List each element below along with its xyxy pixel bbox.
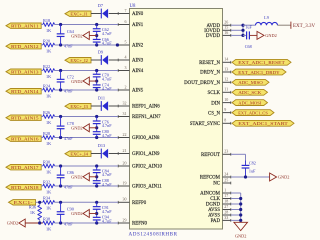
wire — [231, 219, 241, 221]
svg-text:EXT_ADC1_DRDY: EXT_ADC1_DRDY — [238, 70, 280, 75]
svg-text:7: 7 — [125, 8, 127, 13]
pin 29 REFN0 — [118, 217, 148, 226]
pin 25 NC — [213, 177, 231, 186]
svg-text:REFP1_AIN6: REFP1_AIN6 — [132, 105, 160, 110]
port EXT_ADC1_CS — [232, 110, 274, 116]
junction — [59, 115, 62, 118]
power port GND2 — [71, 32, 89, 40]
svg-text:D13: D13 — [98, 143, 105, 148]
svg-text:1uF: 1uF — [245, 24, 252, 29]
svg-text:11: 11 — [224, 87, 228, 92]
junction — [116, 43, 119, 46]
port EXC1- — [9, 200, 36, 205]
svg-text:ADC_MOSI: ADC_MOSI — [238, 100, 261, 105]
port EXT_ADC1_START — [232, 120, 294, 126]
svg-text:1K: 1K — [46, 189, 52, 194]
capacitor C78 — [57, 117, 74, 141]
junction — [59, 201, 62, 204]
capacitor C90 — [57, 202, 74, 226]
svg-text:17: 17 — [224, 193, 228, 198]
svg-text:4.7nF: 4.7nF — [102, 86, 112, 91]
junction — [239, 213, 242, 216]
svg-text:EXT_ADC1_CS: EXT_ADC1_CS — [238, 110, 268, 115]
junction — [59, 164, 62, 167]
svg-text:30: 30 — [123, 197, 127, 202]
svg-text:33: 33 — [224, 215, 228, 220]
wire — [91, 13, 101, 15]
svg-text:47nF: 47nF — [64, 221, 73, 226]
pin 1 AINCOM — [200, 187, 231, 196]
svg-text:EXT_ADC1_START: EXT_ADC1_START — [238, 121, 288, 126]
wire — [91, 153, 101, 155]
wire — [55, 70, 118, 72]
svg-text:ADS124S08IRHBR: ADS124S08IRHBR — [129, 232, 178, 238]
pin 32 REFP1_AIN6 — [118, 100, 160, 109]
junction — [239, 197, 242, 200]
wire — [41, 137, 43, 139]
svg-text:14: 14 — [224, 57, 228, 62]
power port GND2 — [257, 31, 277, 39]
wire — [91, 59, 101, 61]
svg-text:GPIO1_AIN9: GPIO1_AIN9 — [132, 152, 160, 157]
svg-text:RTD_AIN15: RTD_AIN15 — [11, 115, 39, 120]
svg-text:47nF: 47nF — [64, 43, 73, 48]
svg-text:RTD_AIN12: RTD_AIN12 — [11, 44, 39, 49]
junction — [95, 43, 98, 46]
resistor R26 — [43, 110, 55, 125]
svg-text:16: 16 — [224, 30, 228, 35]
wire — [36, 201, 43, 203]
port EXT_ADC1_DRDY — [232, 69, 286, 75]
port RTD_AIN16 — [6, 136, 41, 141]
wire gnd bus — [240, 193, 242, 222]
capacitor C80 — [93, 128, 112, 138]
svg-text:22: 22 — [123, 132, 127, 137]
capacitor C94 — [93, 213, 112, 223]
junction — [95, 23, 98, 26]
svg-text:4: 4 — [125, 54, 127, 59]
diode D11 — [98, 96, 108, 111]
svg-text:GPIO3_AIN11: GPIO3_AIN11 — [132, 185, 162, 190]
junction — [95, 126, 98, 129]
svg-text:D7: D7 — [98, 3, 104, 8]
wire — [41, 165, 43, 167]
svg-text:6: 6 — [125, 19, 127, 24]
resistor R18 — [43, 18, 55, 33]
wire — [231, 176, 270, 178]
port EXT_ADC1_RESET — [232, 59, 291, 65]
wire — [250, 34, 257, 36]
svg-text:21: 21 — [123, 148, 127, 153]
svg-text:10: 10 — [224, 97, 228, 102]
resistor R34 — [43, 196, 55, 211]
wire — [41, 44, 43, 46]
svg-text:32: 32 — [123, 100, 127, 105]
wire — [55, 89, 118, 91]
resistor R32 — [43, 179, 55, 194]
svg-text:GND2: GND2 — [235, 233, 246, 238]
svg-text:1K: 1K — [46, 206, 52, 211]
svg-text:AVSS: AVSS — [208, 214, 220, 219]
svg-text:R38: R38 — [43, 216, 50, 221]
svg-text:4.7nF: 4.7nF — [102, 123, 112, 128]
svg-text:9: 9 — [224, 107, 226, 112]
svg-text:RTD_AIN13: RTD_AIN13 — [11, 69, 39, 74]
svg-text:27: 27 — [224, 204, 228, 209]
diode D7 — [98, 3, 108, 18]
svg-text:PAD: PAD — [211, 219, 221, 224]
svg-text:1K: 1K — [46, 169, 52, 174]
junction — [59, 221, 62, 224]
port RTD_AIN13 — [6, 69, 41, 74]
svg-text:R24: R24 — [43, 83, 51, 88]
capacitor C66 — [93, 36, 112, 46]
wire — [231, 203, 241, 205]
svg-text:29: 29 — [123, 217, 127, 222]
svg-text:REFN1_AIN7: REFN1_AIN7 — [132, 115, 161, 120]
wire — [109, 105, 130, 107]
svg-text:1K: 1K — [30, 210, 36, 215]
svg-text:C68: C68 — [245, 44, 252, 49]
port RTD_AIN11 — [6, 23, 41, 28]
pin 8 START_SYNC — [190, 118, 231, 127]
power port GND2 — [71, 124, 89, 132]
svg-text:EXC+_I3: EXC+_I3 — [70, 104, 88, 109]
capacitor C91 — [93, 202, 112, 214]
wire — [231, 214, 241, 216]
resistor R28 — [43, 131, 55, 146]
capacitor C72 — [57, 71, 74, 94]
wire — [278, 24, 291, 26]
svg-text:AIN3: AIN3 — [132, 59, 144, 64]
svg-text:REFP0: REFP0 — [132, 201, 147, 206]
svg-text:28: 28 — [224, 209, 228, 214]
pin 15 IOVDD — [204, 25, 231, 34]
wire — [55, 24, 118, 26]
pin 28 AVSS — [208, 209, 231, 218]
pin 7 AIN0 — [118, 8, 144, 17]
svg-text:4.7nF: 4.7nF — [102, 133, 112, 138]
pin 19 GPIO3_AIN11 — [118, 180, 162, 189]
port ADC_MOSI — [232, 100, 268, 106]
resistor R38 — [43, 216, 55, 231]
junction — [95, 34, 98, 37]
junction — [95, 164, 98, 167]
svg-text:1K: 1K — [46, 120, 52, 125]
svg-text:AIN5: AIN5 — [132, 89, 144, 94]
wire — [41, 185, 43, 187]
svg-text:5: 5 — [125, 39, 127, 44]
svg-text:1K: 1K — [46, 74, 52, 79]
pin 14 RESET_N — [199, 57, 231, 66]
svg-text:REFCOM: REFCOM — [200, 176, 221, 181]
svg-text:47nF: 47nF — [64, 136, 73, 141]
wire — [231, 198, 241, 200]
wire — [55, 116, 118, 118]
svg-text:4.7nF: 4.7nF — [102, 182, 112, 187]
op-amp/IC U8 ADS124S08IRHBR body — [129, 4, 223, 238]
svg-text:REFOUT: REFOUT — [201, 153, 220, 158]
wire — [231, 153, 246, 155]
wire — [41, 89, 43, 91]
pin 5 AIN2 — [118, 39, 144, 48]
svg-text:GND2: GND2 — [71, 33, 82, 38]
pin 3 AIN4 — [118, 65, 144, 74]
pin 30 REFP0 — [118, 197, 147, 206]
junction — [95, 184, 98, 187]
power port GND2 — [71, 77, 89, 85]
pin 21 GPIO1_AIN9 — [118, 148, 160, 157]
svg-text:12: 12 — [224, 77, 228, 82]
pin 12 DOUT_DRDY_N — [184, 77, 231, 86]
svg-text:1K: 1K — [46, 93, 52, 98]
resistor R30 — [43, 159, 55, 174]
svg-text:EXT_ADC1_RESET: EXT_ADC1_RESET — [238, 60, 285, 65]
resistor R22 — [43, 64, 55, 79]
capacitor C62 — [93, 25, 112, 36]
junction — [95, 115, 98, 118]
svg-text:4.7nF: 4.7nF — [102, 76, 112, 81]
junction — [59, 136, 62, 139]
junction — [239, 208, 242, 211]
junction — [239, 202, 242, 205]
power port GND2 — [71, 173, 89, 181]
svg-text:19: 19 — [123, 180, 127, 185]
wire — [231, 34, 243, 36]
svg-text:RESET_N: RESET_N — [199, 61, 220, 66]
wire — [245, 154, 247, 160]
junction — [38, 201, 41, 204]
svg-text:GND2: GND2 — [265, 33, 276, 38]
svg-text:DRDY_N: DRDY_N — [200, 71, 220, 76]
port RTD_AIN12 — [6, 44, 41, 49]
svg-text:GND2: GND2 — [71, 211, 82, 216]
capacitor C70 — [93, 71, 112, 82]
wire — [89, 212, 96, 214]
capacitor C84 — [93, 166, 112, 177]
svg-text:1K: 1K — [46, 48, 52, 53]
junction — [95, 212, 98, 215]
svg-text:R20: R20 — [43, 38, 50, 43]
port EXC+_I2 — [65, 58, 91, 63]
svg-text:4.7nF: 4.7nF — [102, 41, 112, 46]
junction — [241, 29, 244, 32]
wire — [89, 80, 96, 82]
wire — [25, 222, 43, 224]
svg-text:RTD_AIN18: RTD_AIN18 — [11, 185, 39, 190]
svg-text:13: 13 — [224, 66, 228, 71]
svg-text:47nF: 47nF — [64, 184, 73, 189]
pin 20 GPIO2_AIN10 — [118, 160, 162, 169]
wire — [109, 13, 130, 15]
resistor R24 — [43, 83, 55, 98]
wire — [41, 116, 43, 118]
power port GND2 — [71, 209, 89, 217]
svg-text:D11: D11 — [98, 96, 105, 101]
port ADC_SCK — [232, 89, 268, 95]
svg-text:EXT_3.3V: EXT_3.3V — [293, 24, 315, 29]
pin 11 SCLK — [207, 87, 231, 96]
svg-text:RTD_AIN16: RTD_AIN16 — [11, 136, 39, 141]
capacitor C82 — [242, 161, 256, 178]
svg-text:CS_N: CS_N — [208, 111, 220, 116]
wire — [109, 59, 130, 61]
wire — [231, 29, 243, 31]
svg-text:RTD_AIN17: RTD_AIN17 — [11, 165, 39, 170]
junction — [95, 221, 98, 224]
svg-text:1: 1 — [224, 187, 226, 192]
port ADC_MISO — [232, 79, 269, 85]
svg-text:D9: D9 — [98, 50, 103, 55]
junction — [95, 136, 98, 139]
svg-text:R36: R36 — [29, 205, 37, 210]
svg-text:18: 18 — [224, 198, 228, 203]
wire — [55, 44, 118, 46]
pin 6 AIN1 — [118, 19, 144, 28]
port RTD_AIN14 — [6, 89, 41, 94]
svg-text:AIN0: AIN0 — [132, 12, 144, 17]
svg-text:2: 2 — [125, 84, 127, 89]
wire — [55, 222, 118, 224]
port EXC+_I4 — [65, 151, 91, 156]
junction — [95, 88, 98, 91]
svg-text:L9: L9 — [264, 15, 269, 20]
capacitor C68 — [243, 24, 252, 49]
svg-text:25: 25 — [224, 177, 228, 182]
wire supply bus — [242, 25, 244, 35]
power port GND2 — [7, 219, 25, 227]
svg-text:4.7nF: 4.7nF — [102, 31, 112, 36]
wire — [55, 185, 118, 187]
junction — [59, 23, 62, 26]
svg-text:AVSS: AVSS — [208, 208, 220, 213]
svg-text:AIN1: AIN1 — [132, 23, 144, 28]
svg-text:CLK: CLK — [210, 197, 220, 202]
svg-text:R30: R30 — [43, 159, 50, 164]
port RTD_AIN18 — [6, 185, 41, 190]
wire — [55, 137, 118, 139]
svg-text:GND2: GND2 — [71, 126, 82, 131]
pin 13 DRDY_N — [200, 66, 231, 75]
port RTD_AIN17 — [6, 165, 41, 170]
svg-text:AIN2: AIN2 — [132, 44, 144, 49]
pin 33 PAD — [211, 215, 231, 224]
svg-text:AIN4: AIN4 — [132, 69, 144, 74]
wire — [41, 24, 43, 26]
power port GND2 — [234, 222, 248, 238]
svg-text:DVDD: DVDD — [206, 34, 221, 39]
svg-text:R34: R34 — [43, 196, 51, 201]
junction — [95, 201, 98, 204]
svg-text:23: 23 — [224, 149, 228, 154]
svg-text:GND2: GND2 — [71, 79, 82, 84]
svg-text:R22: R22 — [43, 64, 50, 69]
junction — [38, 221, 41, 224]
svg-text:4.7nF: 4.7nF — [102, 218, 112, 223]
svg-text:DIN: DIN — [211, 101, 220, 106]
wire — [231, 192, 241, 194]
svg-text:1K: 1K — [46, 141, 52, 146]
pin 17 CLK — [210, 193, 231, 202]
capacitor C76 — [93, 117, 112, 129]
junction — [244, 175, 247, 178]
wire — [231, 24, 243, 26]
svg-text:31: 31 — [123, 111, 127, 116]
capacitor C74 — [93, 81, 112, 91]
svg-text:GND2: GND2 — [71, 175, 82, 180]
power port GND2 — [270, 173, 290, 181]
power port EXT_3.3V — [291, 22, 316, 30]
capacitor C86 — [57, 166, 74, 189]
svg-text:47nF: 47nF — [64, 88, 73, 93]
svg-text:ADC_SCK: ADC_SCK — [238, 90, 262, 95]
svg-text:RTD_AIN11: RTD_AIN11 — [11, 23, 39, 28]
capacitor C64 — [57, 25, 75, 49]
pin 24 REFCOM — [200, 171, 231, 180]
wire — [41, 70, 43, 72]
svg-text:R18: R18 — [43, 18, 50, 23]
wire — [89, 35, 96, 37]
pin 18 DGND — [206, 198, 231, 207]
svg-text:GPIO0_AIN8: GPIO0_AIN8 — [132, 136, 160, 141]
svg-text:GPIO2_AIN10: GPIO2_AIN10 — [132, 165, 162, 170]
svg-text:REFN0: REFN0 — [132, 222, 148, 227]
junction — [59, 69, 62, 72]
svg-text:EXC+_I1: EXC+_I1 — [70, 11, 88, 16]
wire — [89, 127, 96, 129]
svg-text:8: 8 — [224, 118, 226, 123]
wire — [55, 165, 118, 167]
diode D13 — [98, 143, 108, 158]
svg-text:R28: R28 — [43, 131, 50, 136]
junction — [95, 79, 98, 82]
wire — [89, 176, 96, 178]
svg-text:24: 24 — [224, 171, 228, 176]
pin 22 GPIO0_AIN8 — [118, 132, 160, 141]
inductor L9 — [256, 15, 278, 25]
pin 16 DVDD — [206, 30, 231, 39]
svg-text:4.7nF: 4.7nF — [102, 209, 112, 214]
svg-text:SCLK: SCLK — [207, 91, 220, 96]
svg-text:20: 20 — [123, 160, 127, 165]
junction — [241, 24, 244, 27]
wire — [55, 201, 118, 203]
svg-text:R26: R26 — [43, 110, 51, 115]
svg-text:R32: R32 — [43, 179, 50, 184]
pin 2 AIN5 — [118, 84, 144, 93]
svg-text:1uF: 1uF — [249, 169, 256, 174]
svg-text:1K: 1K — [46, 226, 52, 231]
junction — [59, 43, 62, 46]
svg-text:START_SYNC: START_SYNC — [190, 122, 220, 127]
resistor R20 — [43, 38, 55, 53]
wire — [91, 105, 101, 107]
svg-text:U8: U8 — [130, 4, 136, 9]
wire — [39, 220, 41, 223]
svg-text:AINCOM: AINCOM — [200, 192, 220, 197]
junction — [59, 88, 62, 91]
wire — [39, 202, 41, 205]
pin 26 AVDD — [207, 20, 232, 29]
diode D9 — [98, 50, 108, 65]
svg-text:GND2: GND2 — [7, 221, 18, 226]
wire — [231, 209, 241, 211]
svg-text:C82: C82 — [249, 161, 256, 166]
port RTD_AIN15 — [6, 115, 41, 120]
port EXC+_I3 — [65, 104, 91, 109]
svg-text:DGND: DGND — [206, 203, 221, 208]
junction — [241, 34, 244, 37]
